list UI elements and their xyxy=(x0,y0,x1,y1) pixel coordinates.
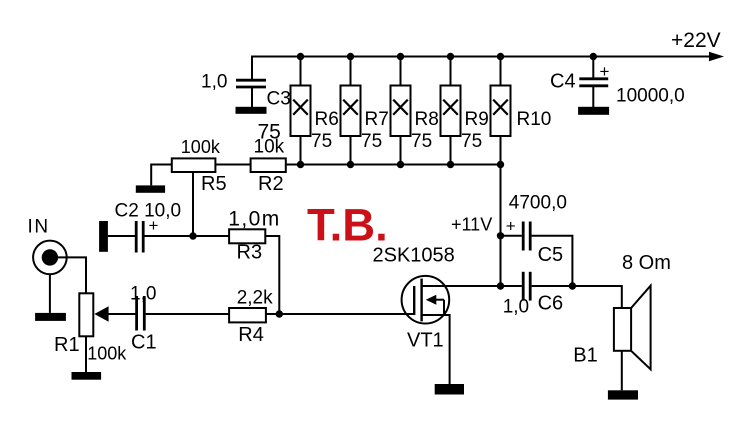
resistor R7 xyxy=(341,86,361,137)
wire: drain bus down to output node xyxy=(500,165,502,287)
svg-text:75: 75 xyxy=(461,131,482,152)
junction: C2/R5/R3 node xyxy=(189,232,196,239)
svg-text:10000,0: 10000,0 xyxy=(616,86,685,107)
capacitor C3 xyxy=(236,80,266,87)
resistor R10 xyxy=(491,86,511,137)
wire: jack shield down xyxy=(49,274,51,313)
wire: C2 to R3 xyxy=(145,235,230,237)
svg-text:C3: C3 xyxy=(267,89,291,110)
svg-text:2,2k: 2,2k xyxy=(237,288,273,309)
svg-text:R6: R6 xyxy=(315,109,339,130)
svg-text:R2: R2 xyxy=(258,173,284,195)
junction: gate node xyxy=(276,310,283,317)
ground (R1) xyxy=(72,372,102,380)
wire: R3 right lead and down to gate node xyxy=(265,236,279,314)
transistor VT1 (2SK1058 MOSFET) xyxy=(402,276,450,324)
wire: R7 top lead xyxy=(350,57,352,86)
svg-text:75: 75 xyxy=(311,131,332,152)
junction: +11V node xyxy=(497,232,504,239)
ground (B1) xyxy=(608,390,638,399)
svg-text:+: + xyxy=(506,217,516,236)
svg-text:B1: B1 xyxy=(573,345,597,367)
svg-text:100k: 100k xyxy=(181,137,221,157)
input jack circle xyxy=(33,241,67,275)
svg-text:R4: R4 xyxy=(238,324,264,346)
capacitor C6 xyxy=(523,272,530,301)
svg-text:+22V: +22V xyxy=(671,29,721,52)
resistor R2 xyxy=(251,158,286,172)
wire: +22V top rail xyxy=(251,56,711,58)
svg-text:R10: R10 xyxy=(517,109,552,130)
svg-text:75: 75 xyxy=(411,131,432,152)
resistor R9 xyxy=(441,86,461,137)
wire: C5 right to output line xyxy=(532,236,573,286)
wire: wiper to C1 xyxy=(109,313,136,315)
wire: VT1 source to ground xyxy=(422,315,450,384)
wire: R4 to gate xyxy=(266,313,414,315)
ground (R5) xyxy=(136,185,165,192)
resistor R6 xyxy=(291,86,311,137)
wire: +11V node to C5 xyxy=(501,235,522,237)
svg-text:1,0: 1,0 xyxy=(503,297,529,318)
ground (C2, side bar) xyxy=(99,221,108,252)
junction: bottom rail at R8 xyxy=(397,161,404,168)
junction: top rail at R8 xyxy=(397,53,404,60)
svg-text:1,0: 1,0 xyxy=(130,284,156,305)
wire: R10 bottom lead xyxy=(500,136,502,165)
wire: C3 top lead xyxy=(251,57,253,81)
svg-text:C5: C5 xyxy=(538,244,564,266)
svg-text:1,0m: 1,0m xyxy=(228,208,280,231)
resistor R3 xyxy=(229,229,265,243)
junction: bottom rail at R9 xyxy=(447,161,454,168)
wire: C1 to R4 xyxy=(146,313,230,315)
junction: top rail at R10 xyxy=(497,53,504,60)
svg-text:C6: C6 xyxy=(538,293,564,315)
svg-text:8 Om: 8 Om xyxy=(622,252,671,274)
svg-text:+11V: +11V xyxy=(451,215,492,235)
+22V supply arrowhead xyxy=(709,52,724,61)
wire: bottom rail (drain bus) xyxy=(286,164,501,166)
junction: top rail at R9 xyxy=(447,53,454,60)
wire: C4 top lead xyxy=(592,57,594,81)
wire: R10 top lead xyxy=(500,57,502,86)
wire: C3 bottom lead xyxy=(251,88,253,107)
wire: R9 bottom lead xyxy=(450,136,452,165)
svg-text:R9: R9 xyxy=(465,109,489,130)
ground (input jack) xyxy=(35,313,66,321)
junction: top rail at C4 xyxy=(590,53,597,60)
svg-text:+: + xyxy=(600,62,610,81)
wire: R8 top lead xyxy=(400,57,402,86)
capacitor C1 xyxy=(137,296,145,331)
svg-text:1,0: 1,0 xyxy=(201,72,227,93)
svg-text:10k: 10k xyxy=(254,137,285,158)
wire: R5 to R2 xyxy=(215,164,250,166)
junction: bottom rail at R6 xyxy=(297,161,304,168)
wire: R8 bottom lead xyxy=(400,136,402,165)
resistor R8 xyxy=(391,86,411,137)
junction: C5/C6 output node xyxy=(569,282,576,289)
wire: R6 top lead xyxy=(300,57,302,86)
capacitor C4 xyxy=(579,79,608,86)
ground (C4) xyxy=(578,107,609,115)
junction: top rail at R7 xyxy=(347,53,354,60)
svg-text:4700,0: 4700,0 xyxy=(509,193,567,214)
svg-text:R8: R8 xyxy=(415,109,439,130)
wire: R9 top lead xyxy=(450,57,452,86)
svg-text:75: 75 xyxy=(361,131,382,152)
wire: R5 tap down to C2 node xyxy=(192,172,194,236)
wire: C4 bottom lead xyxy=(592,87,594,107)
svg-text:R7: R7 xyxy=(365,109,389,130)
svg-text:C1: C1 xyxy=(131,332,157,354)
resistor R4 xyxy=(229,308,266,322)
wire: jack to R1 top xyxy=(50,257,86,293)
wire: ground bar to C2 xyxy=(108,235,135,237)
capacitor C5 xyxy=(523,222,530,251)
ground (VT1 source) xyxy=(435,384,464,395)
svg-text:R1: R1 xyxy=(54,334,80,356)
svg-text:R5: R5 xyxy=(201,173,227,195)
svg-text:C4: C4 xyxy=(550,71,576,93)
wire: R7 bottom lead xyxy=(350,136,352,165)
speaker B1 xyxy=(614,286,651,370)
R1 wiper arrow xyxy=(94,306,108,322)
junction: bottom rail at R7 xyxy=(347,161,354,168)
wire: R1 bottom to ground xyxy=(85,336,87,372)
svg-text:2SK1058: 2SK1058 xyxy=(373,245,455,267)
wire: R6 bottom lead xyxy=(300,136,302,165)
wire: C6 to speaker xyxy=(532,286,622,308)
svg-text:R3: R3 xyxy=(237,242,263,264)
svg-text:VT1: VT1 xyxy=(407,330,444,352)
svg-text:IN: IN xyxy=(28,217,50,238)
svg-text:+: + xyxy=(149,216,159,235)
junction: bottom rail at R10 xyxy=(497,161,504,168)
junction: top rail at R6 xyxy=(297,53,304,60)
svg-text:Т.В.: Т.В. xyxy=(307,200,388,251)
capacitor C2 xyxy=(136,221,143,253)
input jack center pin xyxy=(42,249,58,265)
potentiometer R1 xyxy=(79,293,93,336)
junction: drain/output node xyxy=(497,282,504,289)
wire: R5 left lead to ground xyxy=(151,165,172,186)
resistor R5 xyxy=(172,158,216,172)
wire: output node to C6 xyxy=(501,285,522,287)
wire: VT1 drain to output node xyxy=(422,285,501,287)
wire: speaker to ground xyxy=(621,351,623,391)
ground (C3) xyxy=(236,107,267,114)
svg-text:100k: 100k xyxy=(87,344,127,364)
